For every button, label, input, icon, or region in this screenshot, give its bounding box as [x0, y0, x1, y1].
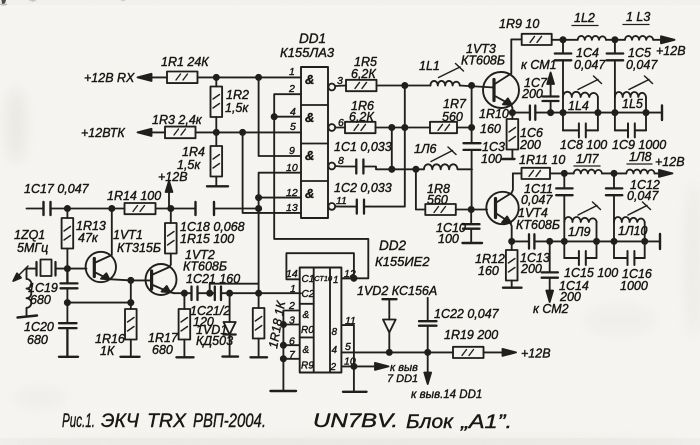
capacitor C20 (1C20 680)	[59, 323, 77, 356]
svg-text:1R9 10: 1R9 10	[499, 17, 539, 31]
transistor Q4 (1VT4 KT608B)	[486, 173, 518, 241]
node junction tank L10 left	[611, 239, 616, 244]
arrow down k SM2	[549, 283, 551, 294]
node junction tank L9 right	[594, 239, 599, 244]
node junction between C21 and C21/2	[207, 291, 212, 296]
svg-text:1Л7: 1Л7	[576, 152, 600, 166]
arrow +12V top right	[661, 36, 675, 43]
wire pin10 drop to pin12 and below	[259, 173, 301, 294]
svg-text:680: 680	[30, 293, 51, 307]
svg-text:1С8 100: 1С8 100	[560, 138, 607, 152]
svg-text:160: 160	[480, 122, 501, 136]
node junction pin4	[272, 114, 277, 119]
resistor R4 (1R4 1,5k) vertical	[211, 132, 223, 186]
resistor R10 (1R10 160) vertical on emitter	[507, 113, 519, 159]
svg-text:+12В: +12В	[655, 155, 685, 169]
resistor R17 (1R17 680) vertical	[179, 293, 191, 356]
svg-text:КД503: КД503	[196, 334, 233, 348]
svg-text:1: 1	[289, 66, 295, 78]
svg-text:1 L3: 1 L3	[626, 10, 650, 24]
node junction pin10 ground riser	[351, 364, 356, 369]
node junction feedback left	[65, 300, 70, 305]
resistor R14 (1R14 100)	[125, 203, 156, 214]
svg-text:160: 160	[478, 264, 499, 278]
svg-text:5: 5	[345, 341, 351, 353]
resistor R11 (1R11 10)	[522, 168, 551, 179]
node junction pin3	[281, 322, 286, 327]
svg-text:0,047: 0,047	[626, 58, 658, 72]
ground below input coil	[18, 316, 38, 318]
wire 1R8 to VT4 base	[456, 209, 487, 211]
tank circuit L10/C16 risers	[614, 222, 645, 258]
inductor L10 coil	[614, 217, 645, 222]
wire VT1 emitter to VT2 base	[131, 279, 152, 281]
node junction VT1 emitter / VT2 base	[128, 278, 133, 283]
svg-text:1R10: 1R10	[479, 107, 509, 121]
node junction R13 top	[65, 206, 70, 211]
svg-text:1С17 0,047: 1С17 0,047	[24, 182, 90, 196]
wire pin11 net with C2	[335, 205, 368, 207]
inductor L7 (1L7)	[574, 170, 602, 174]
op-amp U1: IC DD1 K155LA3 box with 4 NAND gates	[301, 67, 328, 218]
resistor R13 (1R13 47K) vertical	[62, 209, 74, 269]
node junction VT3 base / 1L1	[469, 83, 474, 88]
wire DD2 pin10 to k vyv 7 DD1 arrow	[342, 365, 378, 367]
svg-text:+12В: +12В	[521, 347, 551, 361]
svg-text:1С22 0,047: 1С22 0,047	[434, 307, 500, 321]
svg-text:0,047: 0,047	[574, 58, 606, 72]
resistor R18 (1R18 1K) vertical	[253, 293, 265, 356]
output bubble pin 11	[328, 203, 335, 210]
wire +12V lower rail with 1L7 1L8	[550, 172, 660, 174]
node junction 1R6-to-pin8 drop	[389, 125, 394, 130]
capacitor C7 (1C7 200) to SM1	[543, 91, 559, 113]
svg-text:UN7BV.: UN7BV.	[313, 410, 398, 432]
svg-text:к СМ1: к СМ1	[521, 58, 557, 72]
svg-text:К155ЛА3: К155ЛА3	[280, 45, 335, 60]
node junction tank L4 right	[595, 110, 600, 115]
wire DD2 pin5 line to 1R19 and +12V	[342, 351, 505, 353]
output bubble pin 8	[328, 163, 335, 170]
wire +12V top rail with 1L2 1L3	[552, 39, 662, 41]
svg-text:„А1”.: „А1”.	[460, 411, 512, 433]
wire riser from 1R5 node down to pin11 wire	[369, 86, 405, 207]
node junction C5 top	[612, 37, 617, 42]
inductor L5 coil	[615, 92, 646, 97]
node junction VD2 bottom	[387, 350, 392, 355]
svg-text:к СМ2: к СМ2	[533, 302, 569, 316]
ground below 1R17	[177, 356, 194, 358]
terminal upper output	[661, 106, 663, 121]
svg-text:&: &	[305, 72, 314, 87]
resistor R3 (1R3 2,4K)	[165, 127, 196, 139]
resistor R15 (1R15 100) vertical below rail	[165, 209, 177, 265]
svg-text:1С1 0,033: 1С1 0,033	[334, 140, 392, 154]
capacitor C1 (1C1 0,033)	[356, 160, 363, 174]
node junction pin12 riser	[351, 276, 356, 281]
capacitor C13 (1C13 200) series	[529, 234, 534, 248]
svg-text:2: 2	[330, 362, 337, 373]
svg-text:560: 560	[427, 193, 448, 207]
svg-text:1,5к: 1,5к	[225, 101, 249, 115]
svg-text:DD1: DD1	[299, 31, 326, 46]
trimmer arrow L5	[629, 76, 653, 90]
svg-text:1R7: 1R7	[443, 97, 467, 111]
svg-text:R0: R0	[301, 325, 314, 336]
node junction R17 top	[182, 291, 187, 296]
svg-text:+12В: +12В	[158, 170, 188, 184]
svg-text:2: 2	[288, 83, 295, 95]
capacitor C11 (1C11 0,047)	[556, 173, 572, 222]
svg-text:5МГц: 5МГц	[17, 241, 48, 255]
node junction C12 top	[611, 171, 616, 176]
wire DD2 pin2 pin3 pin6 pin7 to ground rail	[283, 311, 299, 391]
svg-text:1С20: 1С20	[24, 320, 54, 334]
svg-text:200: 200	[519, 138, 541, 152]
node junction +12V rail end	[256, 206, 261, 211]
svg-text:1Л8: 1Л8	[629, 150, 652, 164]
node junction pin8 wire / drop	[389, 167, 394, 172]
inductor L1 (1L1) with trimmer arrow	[430, 81, 459, 86]
svg-text:4: 4	[332, 345, 338, 356]
ground below DD2 left pins	[271, 390, 297, 392]
svg-text:КТ315Б: КТ315Б	[117, 241, 161, 255]
svg-text:1К: 1К	[100, 344, 115, 358]
resistor R1 (1R1 24K)	[167, 72, 198, 84]
svg-text:1С2 0,033: 1С2 0,033	[334, 181, 392, 195]
svg-text:СТ10: СТ10	[314, 274, 333, 283]
svg-text:1L2: 1L2	[574, 11, 595, 25]
ground below 1R10	[502, 158, 515, 160]
node junction VD1 top	[227, 291, 232, 296]
svg-text:С2: С2	[302, 289, 315, 300]
transistor Q3 (1VT3 KT608B)	[483, 39, 519, 112]
wire jog from mid-cap node to pin10 riser	[210, 284, 259, 294]
wire VT3 emitter output y=112.6	[512, 112, 662, 114]
wire pin3 net to 1L1 and VT3 base	[335, 86, 494, 88]
wire DD2 pin11 down to pin10 wire	[342, 325, 354, 391]
wire DD2 pin14-pin12 bridge	[286, 253, 354, 279]
wire pin12	[259, 197, 301, 199]
node junction tank L5 left	[612, 110, 617, 115]
svg-text:1Л9: 1Л9	[568, 225, 591, 239]
capacitor C21/2 (120)	[215, 287, 221, 301]
svg-text:Рис.1.: Рис.1.	[62, 410, 95, 432]
ground below C20	[59, 356, 78, 358]
svg-text:200: 200	[559, 290, 581, 304]
arrow +12V right	[503, 349, 517, 356]
svg-text:1R4: 1R4	[182, 145, 205, 159]
capacitor C16 (1C16 1000) tank bottom	[614, 251, 645, 265]
capacitor C15 (1C15 100) tank bottom	[564, 251, 596, 265]
wire VT2 emitter output line y=293.2	[174, 292, 301, 294]
node junction emitter/R12	[509, 239, 514, 244]
svg-text:200: 200	[521, 87, 543, 101]
wire VT4 emitter output y=241.4	[512, 240, 660, 242]
svg-text:1L1: 1L1	[419, 59, 440, 73]
resistor R8 (1R8 560)	[425, 204, 456, 215]
svg-text:С1: С1	[302, 274, 315, 285]
resistor R9 (1R9 10)	[522, 34, 552, 45]
capacitor C10 (1C10 100) below VT4 base node	[463, 210, 480, 243]
ground below pin10	[343, 391, 367, 393]
capacitor C19 (1C19 680)	[61, 269, 78, 289]
svg-text:11: 11	[336, 195, 347, 207]
svg-text:к выв.14 DD1: к выв.14 DD1	[411, 389, 482, 401]
node junction tank L10 right	[642, 239, 647, 244]
node junction riser crossing 1R6 wire	[402, 125, 407, 130]
ground below VD1	[223, 355, 239, 357]
transistor Q1 (1VT1 KT315B)	[86, 209, 131, 303]
corner scan mark	[2, 0, 7, 4]
svg-text:1: 1	[333, 275, 339, 286]
svg-text:7 DD1: 7 DD1	[387, 373, 418, 385]
output bubble pin 3	[328, 84, 335, 91]
capacitor C4 (1C4 0,047)	[555, 40, 572, 92]
svg-text:Блок: Блок	[406, 411, 454, 433]
wire 1R8 riser	[416, 169, 425, 209]
zener diode VD2 (1VD2 KS156A)	[383, 299, 397, 352]
capacitor C3 (1C3 100)	[464, 143, 481, 150]
node junction 1R8 riser	[413, 167, 418, 172]
svg-text:560: 560	[442, 110, 463, 124]
capacitor C12 (1C12 0,047)	[606, 173, 622, 222]
capacitor C2 (1C2 0,033)	[357, 200, 364, 214]
arrow +12BTK	[138, 129, 152, 136]
trimmer arrow L9	[578, 202, 601, 215]
svg-text:РВП-2004.: РВП-2004.	[193, 410, 266, 432]
svg-text:R9: R9	[301, 361, 314, 372]
inductor L6 (1L6) with trimmer arrow	[424, 164, 472, 169]
capacitor C5 (1C5 0,047)	[607, 40, 624, 92]
node junction C22 bottom	[425, 350, 430, 355]
wire VT4 collector to R11	[513, 172, 522, 174]
svg-text:1Л6: 1Л6	[414, 142, 437, 156]
svg-text:14: 14	[286, 268, 298, 280]
capacitor C6 (1C6 200) series	[530, 106, 535, 120]
tank circuit L5/C9 risers	[615, 92, 646, 131]
svg-text:5: 5	[290, 121, 296, 133]
wire pin4	[274, 116, 301, 118]
svg-text:КТ608Б: КТ608Б	[461, 54, 505, 68]
svg-text:1R11 10: 1R11 10	[519, 153, 565, 167]
node junction pin13 riser on pin5 wire	[240, 130, 245, 135]
node junction 1R5/riser	[402, 83, 407, 88]
wire riser pin5-node down to pin13 wire	[243, 132, 301, 213]
svg-text:&: &	[305, 148, 314, 163]
wire colpitts feedback	[67, 302, 130, 304]
svg-text:1R1 24К: 1R1 24К	[161, 55, 209, 69]
svg-text:1R14 100: 1R14 100	[107, 189, 161, 203]
node junction pin12	[256, 195, 261, 200]
svg-text:47к: 47к	[78, 231, 99, 245]
svg-text:6,2К: 6,2К	[349, 110, 374, 124]
svg-text:200: 200	[520, 262, 542, 276]
resistor R12 (1R12 160) vertical on emitter	[506, 241, 518, 287]
svg-text:100: 100	[438, 232, 459, 246]
svg-text:100: 100	[481, 152, 502, 166]
trimmer arrow L10	[628, 202, 651, 215]
tank circuit L9/C15 risers	[564, 222, 596, 258]
svg-text:1R19 200: 1R19 200	[444, 328, 498, 342]
svg-text:1VT1: 1VT1	[113, 228, 143, 242]
diode VD1 (1VD1 KD503)	[224, 293, 236, 356]
node junction C19 top	[65, 266, 70, 271]
inductor L8 (1L8)	[626, 170, 654, 174]
svg-text:1Л10: 1Л10	[618, 224, 647, 238]
arrow down k vyv 14 DD1	[427, 352, 429, 375]
IC U2: DD2 K155IE2 counter box	[300, 268, 342, 373]
wire pin5 net (+12BTK line)	[148, 131, 301, 133]
svg-text:&: &	[303, 345, 310, 356]
svg-text:1R3 2,4к: 1R3 2,4к	[152, 113, 203, 127]
node junction C4 top	[560, 37, 565, 42]
capacitor C9 (1C9 1000) tank bottom	[615, 123, 646, 137]
node junction VT1 collector	[109, 206, 114, 211]
capacitor C22 (1C22 0,047)	[419, 298, 437, 353]
svg-text:0,047: 0,047	[521, 193, 553, 207]
wire pin8 net with C1 to coil 1L6	[335, 166, 424, 169]
svg-text:&: &	[305, 110, 314, 125]
trimmer arrow L4	[578, 76, 602, 90]
svg-text:1С15 100: 1С15 100	[564, 266, 618, 280]
resistor R2 (1R2 1,5k) vertical	[211, 77, 223, 132]
wire riser pin1 to pin9	[259, 77, 301, 156]
wire C19 to C20 with feedback tap	[66, 288, 68, 322]
svg-text:TRX: TRX	[147, 410, 187, 432]
capacitor C8 (1C8 100) tank bottom	[563, 123, 598, 137]
arrow up k SM1	[550, 78, 552, 91]
capacitor C14 (1C14 200) to SM2	[542, 241, 558, 283]
svg-text:680: 680	[152, 343, 173, 357]
svg-text:+12В RX: +12В RX	[84, 71, 135, 85]
arrow +12B RX	[138, 74, 152, 81]
capacitor C17 (1C17 0,047)	[44, 202, 51, 215]
resistor R16 (1R16 1K) vertical	[125, 303, 137, 357]
svg-text:1R2: 1R2	[226, 88, 249, 102]
svg-text:0,047: 0,047	[627, 189, 659, 203]
node junction emitter/R10	[510, 110, 515, 115]
resistor R19 (1R19 200)	[453, 347, 484, 358]
wire drop from 1R6 wire to pin8 wire	[391, 128, 393, 170]
svg-text:1L4: 1L4	[568, 99, 589, 113]
node junction feedback right	[128, 300, 133, 305]
node junction tank L4 left	[560, 110, 565, 115]
wire VT3 collector to R9	[511, 38, 521, 40]
svg-text:6,2К: 6,2К	[351, 67, 376, 81]
svg-text:ЭКЧ: ЭКЧ	[101, 410, 140, 432]
wire pin2 to pin4 riser and down to DD2 net	[274, 94, 368, 278]
svg-text:1: 1	[290, 283, 296, 295]
resistor R6 (1R6 6,2K)	[345, 122, 376, 133]
svg-text:+12В: +12В	[656, 44, 686, 58]
inductor L9 coil	[564, 217, 596, 222]
svg-text:8: 8	[332, 327, 338, 338]
capacitor C21 (1C21 160)	[192, 287, 198, 301]
svg-text:680: 680	[27, 333, 48, 347]
svg-text:&: &	[305, 186, 314, 201]
svg-text:8: 8	[338, 155, 344, 167]
resistor R5 (1R5 6,2K)	[346, 80, 377, 91]
svg-text:КТ608Б: КТ608Б	[516, 218, 560, 232]
tank circuit L4/C8: left riser	[563, 92, 598, 131]
inductor L4 coil	[563, 92, 598, 97]
node junction 1R7 right	[469, 125, 474, 130]
capacitor C18 (1C18 0,068) wide plates	[196, 202, 215, 215]
inductor L3 (1L3)	[625, 36, 653, 40]
svg-text:1L5: 1L5	[622, 97, 643, 111]
resistor R7 (1R7 560)	[430, 122, 457, 133]
svg-text:К155ИЕ2: К155ИЕ2	[375, 254, 430, 269]
inductor L2 (1L2)	[578, 36, 606, 40]
node junction C14 drop	[547, 239, 552, 244]
inductor input coil with trimmer arrow	[27, 269, 32, 316]
node junction 1R4 top	[214, 130, 219, 135]
node junction R18 / pin10 riser on wire	[256, 291, 261, 296]
ground below 1R12	[503, 287, 522, 289]
svg-text:DD2: DD2	[379, 238, 406, 253]
wire +12V oscillator rail y=208.5	[27, 208, 259, 210]
svg-text:1VD2 КС156А: 1VD2 КС156А	[357, 284, 437, 298]
wire pin6 net 1R6 1R7	[335, 127, 471, 129]
wire vertical VT3-base node down through C3 to 1L6 and VT4 base	[471, 86, 473, 210]
svg-text:1ZQ1: 1ZQ1	[14, 228, 45, 242]
node junction tank L9 left	[562, 239, 567, 244]
arrow to vyv 7 DD1	[375, 363, 389, 370]
node junction tank L5 right	[643, 110, 648, 115]
ground below 1R18	[251, 356, 268, 358]
node junction pin6	[281, 343, 286, 348]
output bubble pin 6	[328, 124, 335, 131]
wire pin1 net from 1R1 to DD1 pin1	[148, 76, 301, 78]
node junction C11 top	[562, 171, 567, 176]
node junction pin1-pin9 riser	[256, 75, 261, 80]
arrow +12V lower right	[659, 170, 673, 177]
terminal lower output	[659, 234, 661, 249]
svg-text:1000: 1000	[620, 279, 648, 293]
node junction VT4 base / C10	[469, 207, 474, 212]
svg-text:&: &	[303, 310, 310, 321]
transistor Q2 (1VT2 KT608B)	[146, 264, 177, 295]
node junction pin7	[281, 356, 286, 361]
wire crystal net to VT1 base	[27, 268, 87, 270]
crystal ZQ1 (1ZQ1 5MGc)	[37, 260, 56, 277]
node junction 1R2 top	[214, 75, 219, 80]
ground below C10	[463, 242, 483, 244]
svg-text:1R15 100: 1R15 100	[180, 232, 234, 246]
power arrow +12V up	[168, 186, 170, 209]
ground below 1R4	[207, 185, 228, 187]
ground below 1R16	[121, 356, 140, 358]
node junction C7 riser	[548, 110, 553, 115]
trimmer arrow on input coil	[17, 266, 29, 278]
node junction +12V arrow / R15	[168, 206, 173, 211]
svg-text:+12ВТК: +12ВТК	[81, 126, 125, 140]
